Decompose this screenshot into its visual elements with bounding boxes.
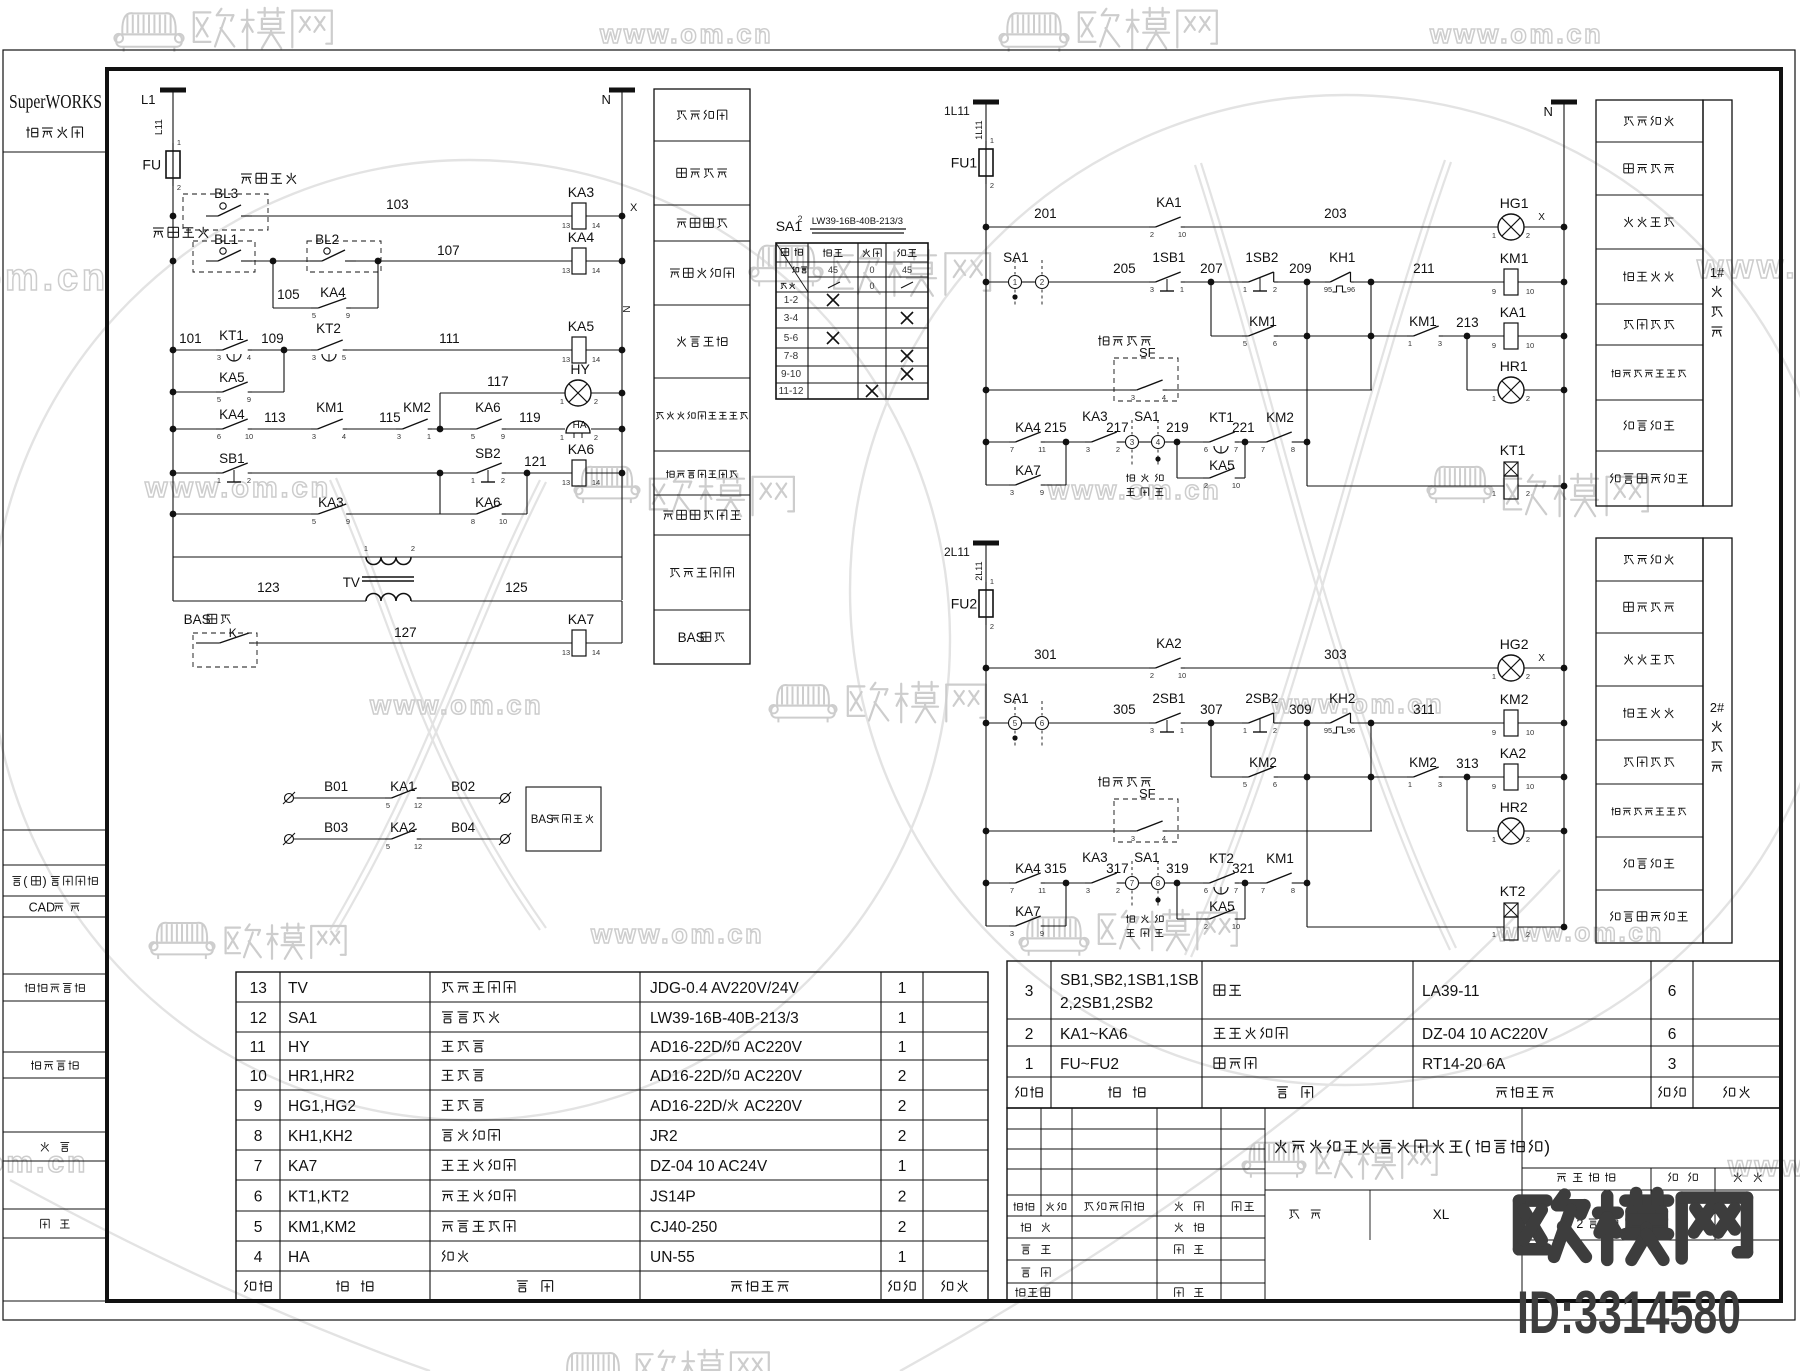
svg-text:1L11: 1L11 <box>944 104 970 118</box>
svg-text:315: 315 <box>1044 861 1067 876</box>
contact KM1 main <box>1371 335 1407 337</box>
contact KA5 branch <box>1176 442 1178 478</box>
svg-text:3: 3 <box>1025 983 1034 1000</box>
watermark sofa logo <box>559 1353 626 1371</box>
time contact KT2 <box>1203 882 1210 884</box>
svg-text:9-10: 9-10 <box>781 369 801 380</box>
svg-text:KM1: KM1 <box>316 400 344 415</box>
svg-text:4: 4 <box>1156 438 1161 447</box>
svg-text:1: 1 <box>364 544 368 553</box>
svg-text:7: 7 <box>1130 879 1135 888</box>
svg-text:LA39-11: LA39-11 <box>1422 983 1479 1000</box>
svg-text:1: 1 <box>560 433 564 442</box>
contact BL2 <box>310 260 322 262</box>
svg-text:2: 2 <box>1204 922 1208 931</box>
svg-text:3: 3 <box>1668 1056 1677 1073</box>
wire 127 <box>254 642 572 644</box>
bell HA <box>566 421 590 433</box>
contact KM2 rung5 <box>1260 441 1267 443</box>
lamp HR1 <box>1498 377 1524 403</box>
svg-text:BL2: BL2 <box>315 232 339 247</box>
svg-text:2: 2 <box>1526 930 1530 939</box>
svg-text:95: 95 <box>1324 726 1332 735</box>
svg-text:10: 10 <box>1526 287 1534 296</box>
svg-text:HY: HY <box>288 1039 310 1056</box>
watermark 欧模网 <box>194 8 332 49</box>
svg-text:9: 9 <box>247 395 251 404</box>
svg-text:5: 5 <box>386 842 390 851</box>
svg-text:KA3: KA3 <box>318 495 344 510</box>
lamp HG2 <box>1498 655 1524 681</box>
svg-text:SA1: SA1 <box>1003 691 1029 706</box>
svg-text:95: 95 <box>1324 285 1332 294</box>
contact BL1 <box>206 260 218 262</box>
svg-text:KT2: KT2 <box>1209 851 1234 866</box>
svg-text:221: 221 <box>1232 420 1255 435</box>
svg-text:3: 3 <box>1150 726 1154 735</box>
contact KA4 <box>986 882 1009 884</box>
left margin title boxes <box>3 829 107 831</box>
svg-text:FU~FU2: FU~FU2 <box>1060 1056 1119 1073</box>
dashed box BL2 <box>307 241 381 272</box>
svg-text:www.om.cn: www.om.cn <box>369 690 543 720</box>
function labels pump2 <box>1596 538 1703 943</box>
svg-text:103: 103 <box>386 197 409 212</box>
svg-text:2: 2 <box>1116 445 1120 454</box>
svg-text:2SB2: 2SB2 <box>1245 691 1278 706</box>
switch SA1 contacts 2 <box>1126 436 1139 449</box>
bus L1 bar <box>160 88 186 93</box>
svg-text:107: 107 <box>437 243 460 258</box>
svg-text:KA5: KA5 <box>568 318 595 334</box>
contact KT2 <box>311 349 318 351</box>
svg-text:SB1,SB2,1SB1,1SB: SB1,SB2,1SB1,1SB <box>1060 972 1199 989</box>
svg-text:2,2SB1,2SB2: 2,2SB1,2SB2 <box>1060 995 1153 1012</box>
svg-text:2: 2 <box>898 1189 907 1206</box>
svg-text:11: 11 <box>1038 886 1046 895</box>
svg-text:KM2: KM2 <box>1409 755 1437 770</box>
svg-text:6: 6 <box>1668 983 1677 1000</box>
node 219 <box>1174 439 1181 446</box>
svg-text:L11: L11 <box>154 119 165 135</box>
svg-text:1: 1 <box>1243 285 1247 294</box>
fuse FU1 <box>985 141 987 184</box>
svg-text:3: 3 <box>1086 445 1090 454</box>
svg-text:321: 321 <box>1232 861 1255 876</box>
contact K <box>212 642 220 644</box>
bus N bar <box>609 88 635 93</box>
svg-text:KA2: KA2 <box>1500 745 1527 761</box>
label 应急控制 <box>1098 777 1109 787</box>
watermark sofa logo <box>574 467 639 503</box>
contact KM1 aux <box>1242 335 1249 337</box>
svg-text:14: 14 <box>592 355 600 364</box>
svg-text:KH2: KH2 <box>1329 691 1355 706</box>
wire 105 branch <box>272 261 274 308</box>
svg-text:2: 2 <box>1040 278 1045 287</box>
wire 301 <box>986 667 1149 669</box>
svg-text:213: 213 <box>1456 315 1479 330</box>
svg-text:7: 7 <box>1261 445 1265 454</box>
svg-text:SA1: SA1 <box>1003 250 1029 265</box>
svg-text:96: 96 <box>1347 726 1355 735</box>
watermark 欧模网 <box>1504 474 1648 516</box>
svg-text:FU1: FU1 <box>951 155 978 171</box>
watermark 欧模网 <box>1079 8 1217 49</box>
svg-text:111: 111 <box>439 331 460 346</box>
contact KT1 <box>216 349 223 351</box>
svg-text:2: 2 <box>1526 231 1530 240</box>
wire 2L11 vertical bus <box>985 543 987 926</box>
contactor coil KM1 <box>1504 269 1518 295</box>
wire 107 <box>252 260 310 262</box>
terminal B03 <box>285 835 294 844</box>
svg-text:1: 1 <box>1013 278 1018 287</box>
svg-text:2: 2 <box>501 476 505 485</box>
svg-text:1-2: 1-2 <box>784 295 799 306</box>
svg-text:www.om.cn: www.om.cn <box>144 472 331 504</box>
contact KA2 <box>1149 667 1156 669</box>
svg-text:311: 311 <box>1413 702 1435 717</box>
node 207 <box>1208 279 1215 286</box>
svg-text:KM1: KM1 <box>1500 250 1529 266</box>
svg-text:KM2: KM2 <box>1500 691 1529 707</box>
svg-text:KA5: KA5 <box>1209 458 1235 473</box>
wire SB1-SB2 <box>252 472 470 474</box>
svg-text:5-6: 5-6 <box>784 333 799 344</box>
svg-text:317: 317 <box>1106 861 1129 876</box>
contact KM2 aux <box>1242 776 1249 778</box>
svg-text:2L11: 2L11 <box>944 545 970 559</box>
svg-text:1SB1: 1SB1 <box>1152 250 1185 265</box>
node dots 1L11 bus <box>983 224 990 231</box>
svg-text:www.om.cn: www.om.cn <box>1429 19 1603 49</box>
svg-text:DZ-04 10 AC220V: DZ-04 10 AC220V <box>1422 1026 1548 1043</box>
watermark big circle left <box>0 160 950 1120</box>
button 2SB1 <box>1149 722 1156 724</box>
svg-text:309: 309 <box>1289 702 1312 717</box>
svg-text:211: 211 <box>1413 261 1435 276</box>
contact KA3 <box>1085 882 1092 884</box>
fuse FU <box>172 143 174 186</box>
svg-text:www.om.cn: www.om.cn <box>599 19 773 49</box>
function labels pump1 <box>1596 100 1703 506</box>
svg-text:127: 127 <box>394 625 417 640</box>
svg-text:www.om.cn: www.om.cn <box>590 919 764 949</box>
wire HR branch <box>1466 336 1468 390</box>
svg-text:10: 10 <box>1178 230 1186 239</box>
svg-text:8: 8 <box>1156 879 1161 888</box>
svg-text:2: 2 <box>411 544 415 553</box>
svg-text:10: 10 <box>1178 671 1186 680</box>
node 313 <box>1443 776 1467 778</box>
svg-text:203: 203 <box>1324 206 1347 221</box>
svg-text:6: 6 <box>1204 886 1208 895</box>
svg-text:9: 9 <box>254 1098 263 1115</box>
watermark bottom arc <box>10 1180 430 1371</box>
svg-text:9: 9 <box>1492 782 1496 791</box>
svg-text:2: 2 <box>898 1128 907 1145</box>
svg-text:B02: B02 <box>451 779 475 794</box>
relay coil KA4 <box>572 248 586 274</box>
label 手停自动 <box>1126 474 1135 482</box>
contact KM2 <box>347 428 396 430</box>
wire 203 <box>1185 226 1498 228</box>
node dots N bus right <box>1561 224 1568 231</box>
terminal B02 <box>421 797 500 799</box>
contact KA4 selfhold <box>311 307 318 309</box>
svg-text:2: 2 <box>1526 835 1530 844</box>
svg-text:3: 3 <box>397 432 401 441</box>
svg-text:5: 5 <box>386 801 390 810</box>
svg-text:X: X <box>1538 653 1545 664</box>
svg-text:1: 1 <box>177 138 181 147</box>
dashed box BL1 <box>193 241 255 272</box>
wire HR branch <box>1466 777 1468 831</box>
relay coil KA6 <box>572 460 586 486</box>
svg-text:10: 10 <box>245 432 253 441</box>
svg-text:2: 2 <box>1150 671 1154 680</box>
svg-text:KA4: KA4 <box>568 229 595 245</box>
svg-text:4: 4 <box>254 1249 263 1266</box>
svg-text:KM2: KM2 <box>1249 755 1277 770</box>
watermark 欧模网 <box>1099 910 1237 951</box>
lamp HR2 <box>1498 818 1524 844</box>
svg-text:7: 7 <box>1010 445 1014 454</box>
svg-text:205: 205 <box>1113 261 1136 276</box>
svg-text:201: 201 <box>1034 206 1057 221</box>
svg-text:0: 0 <box>869 265 874 275</box>
svg-text:7: 7 <box>1234 886 1238 895</box>
svg-text:LW39-16B-40B-213/3: LW39-16B-40B-213/3 <box>650 1010 799 1027</box>
svg-text:KT2: KT2 <box>1500 883 1526 899</box>
component table right <box>1007 961 1781 1108</box>
contact KA7 <box>985 883 987 926</box>
svg-text:KT1: KT1 <box>219 328 244 343</box>
svg-text:KM1,KM2: KM1,KM2 <box>288 1219 356 1236</box>
svg-text:N: N <box>622 305 633 312</box>
dashed box K <box>193 633 257 667</box>
svg-text:13: 13 <box>562 478 570 487</box>
contact KA4 <box>986 441 1009 443</box>
contact KM1 <box>311 428 318 430</box>
svg-text:KA4: KA4 <box>1015 420 1041 435</box>
lamp HG1 <box>1498 214 1524 240</box>
svg-text:0: 0 <box>869 281 874 291</box>
svg-text:1: 1 <box>1492 231 1496 240</box>
watermark curve cross left <box>330 480 540 930</box>
svg-text:2#: 2# <box>1710 700 1725 715</box>
wire 101 <box>173 349 216 351</box>
button 2SB2 <box>1242 722 1249 724</box>
svg-text:1: 1 <box>898 980 907 997</box>
svg-text:BL1: BL1 <box>214 232 238 247</box>
svg-text:2: 2 <box>177 183 181 192</box>
svg-text:KA5: KA5 <box>1209 899 1235 914</box>
svg-text:2SB1: 2SB1 <box>1152 691 1185 706</box>
node 109 <box>281 347 288 354</box>
terminal B01 <box>285 794 294 803</box>
svg-text:KA1: KA1 <box>1500 304 1527 320</box>
svg-text:2: 2 <box>247 476 251 485</box>
function label column (left ladder) <box>654 89 750 664</box>
wire KM aux branch <box>1210 282 1212 336</box>
node dots 2L11 bus <box>983 665 990 672</box>
svg-text:7: 7 <box>1234 445 1238 454</box>
svg-text:X: X <box>630 202 638 214</box>
svg-text:9: 9 <box>1492 728 1496 737</box>
contact KA3 <box>1085 441 1092 443</box>
svg-text:3: 3 <box>1438 780 1442 789</box>
switch SA1 contacts <box>1009 276 1022 289</box>
svg-text:JR2: JR2 <box>650 1128 678 1145</box>
svg-text:115: 115 <box>379 410 401 425</box>
contact KA7 <box>985 442 987 485</box>
svg-text:105: 105 <box>277 287 300 302</box>
switch SA1 contacts 2 <box>1126 877 1139 890</box>
contact KA3 rung <box>311 513 318 515</box>
wire 103 <box>252 215 572 217</box>
svg-text:5: 5 <box>1013 719 1018 728</box>
watermark sofa logo <box>1242 1143 1305 1178</box>
svg-text:2: 2 <box>797 214 802 224</box>
contactor coil KM2 <box>1504 710 1518 736</box>
emergency contact SF <box>986 389 1130 391</box>
svg-text:KA4: KA4 <box>1015 861 1041 876</box>
svg-text:1: 1 <box>898 1249 907 1266</box>
svg-text:): ) <box>1544 1137 1550 1157</box>
wire KT coil rung <box>1306 442 1308 486</box>
svg-text:1: 1 <box>1180 285 1184 294</box>
svg-text:121: 121 <box>524 454 547 469</box>
watermark curve cross right <box>1195 165 1450 950</box>
svg-text:10: 10 <box>1232 481 1240 490</box>
svg-text:7: 7 <box>254 1158 263 1175</box>
contact KA1 feedback <box>294 797 385 799</box>
svg-text:1: 1 <box>1492 835 1496 844</box>
contact KA6 lower <box>470 513 477 515</box>
svg-text:HA: HA <box>288 1249 310 1266</box>
svg-text:KA3: KA3 <box>568 184 595 200</box>
svg-text:14: 14 <box>592 648 600 657</box>
svg-text:SuperWORKS: SuperWORKS <box>9 91 102 113</box>
svg-text:KA1: KA1 <box>1156 195 1182 210</box>
svg-text:125: 125 <box>505 580 528 595</box>
watermark big circle right <box>850 95 1800 1085</box>
svg-text:XL: XL <box>1433 1207 1450 1222</box>
svg-text:KM1: KM1 <box>1266 851 1294 866</box>
relay coil KA5 <box>572 337 586 363</box>
svg-text:TV: TV <box>288 980 308 997</box>
svg-text:2: 2 <box>1116 886 1120 895</box>
svg-text:1: 1 <box>427 432 431 441</box>
svg-text:2: 2 <box>990 622 994 631</box>
svg-text:KH1,KH2: KH1,KH2 <box>288 1128 353 1145</box>
svg-text:KA4: KA4 <box>320 285 346 300</box>
svg-text:KA7: KA7 <box>288 1158 317 1175</box>
svg-text:AD16-22D/: AD16-22D/ <box>650 1098 727 1115</box>
svg-text:3: 3 <box>1010 488 1014 497</box>
svg-text:3: 3 <box>1150 285 1154 294</box>
svg-text:LW39-16B-40B-213/3: LW39-16B-40B-213/3 <box>812 216 903 227</box>
svg-text:6: 6 <box>1273 780 1277 789</box>
svg-text:10: 10 <box>1526 341 1534 350</box>
watermark 欧模网 <box>1317 1144 1437 1179</box>
node HY branch <box>437 426 444 433</box>
svg-text:AC220V: AC220V <box>741 1039 803 1056</box>
svg-text:10: 10 <box>1526 782 1534 791</box>
svg-text:6: 6 <box>217 432 221 441</box>
svg-text:KM1: KM1 <box>1409 314 1437 329</box>
svg-text:12: 12 <box>414 842 422 851</box>
svg-text:1: 1 <box>990 136 994 145</box>
svg-text:4: 4 <box>342 432 346 441</box>
transformer TV <box>366 557 411 565</box>
wire 1L11 vertical bus <box>985 102 987 485</box>
svg-text:www.: www. <box>1727 1150 1800 1183</box>
wire 125 <box>411 600 622 602</box>
svg-text:KA1: KA1 <box>390 779 416 794</box>
watermark 欧模网 <box>637 1350 769 1371</box>
svg-text:HG1: HG1 <box>1500 195 1529 211</box>
wire KT coil rung <box>1306 883 1308 927</box>
svg-text:5: 5 <box>342 353 346 362</box>
label 手停自动 <box>1126 915 1135 923</box>
svg-text:10: 10 <box>1232 922 1240 931</box>
contact KA5 branch <box>173 391 216 393</box>
contact KA4 rung113 <box>173 428 216 430</box>
node 319 <box>1174 880 1181 887</box>
svg-text:1: 1 <box>1492 489 1496 498</box>
svg-text:KA7: KA7 <box>1015 904 1041 919</box>
svg-text:8: 8 <box>254 1128 263 1145</box>
svg-text:1: 1 <box>1492 672 1496 681</box>
svg-text:6: 6 <box>1204 445 1208 454</box>
svg-text:13: 13 <box>562 355 570 364</box>
svg-text:1SB2: 1SB2 <box>1245 250 1278 265</box>
svg-text:2: 2 <box>1273 285 1277 294</box>
svg-text:BAS: BAS <box>678 630 705 645</box>
svg-text:207: 207 <box>1200 261 1223 276</box>
svg-text:13: 13 <box>562 648 570 657</box>
svg-text:HY: HY <box>570 361 590 377</box>
svg-text:5: 5 <box>217 395 221 404</box>
svg-text:209: 209 <box>1289 261 1312 276</box>
svg-text:ID:3314580: ID:3314580 <box>1517 1279 1741 1346</box>
wire 303 <box>1185 667 1498 669</box>
svg-text:KA6: KA6 <box>475 495 501 510</box>
node 309 <box>1304 720 1311 727</box>
svg-text:HR2: HR2 <box>1500 799 1528 815</box>
watermark sofa logo <box>769 685 836 722</box>
svg-text:3: 3 <box>312 432 316 441</box>
svg-text:JS14P: JS14P <box>650 1189 696 1206</box>
svg-text:11-12: 11-12 <box>779 386 804 397</box>
wire KA7 to bus <box>621 601 623 643</box>
svg-text:96: 96 <box>1347 285 1355 294</box>
svg-text:KA3: KA3 <box>1082 409 1108 424</box>
svg-text:2: 2 <box>1150 230 1154 239</box>
svg-text:5: 5 <box>1243 780 1247 789</box>
svg-text:1: 1 <box>1408 339 1412 348</box>
svg-text:11: 11 <box>250 1039 266 1056</box>
svg-text:SB1: SB1 <box>219 451 245 466</box>
watermark 欧模网 big <box>1519 1193 1747 1260</box>
svg-text:KM2: KM2 <box>1266 410 1294 425</box>
svg-text:5: 5 <box>1243 339 1247 348</box>
svg-text:3: 3 <box>1438 339 1442 348</box>
node 105 branch <box>270 258 277 265</box>
